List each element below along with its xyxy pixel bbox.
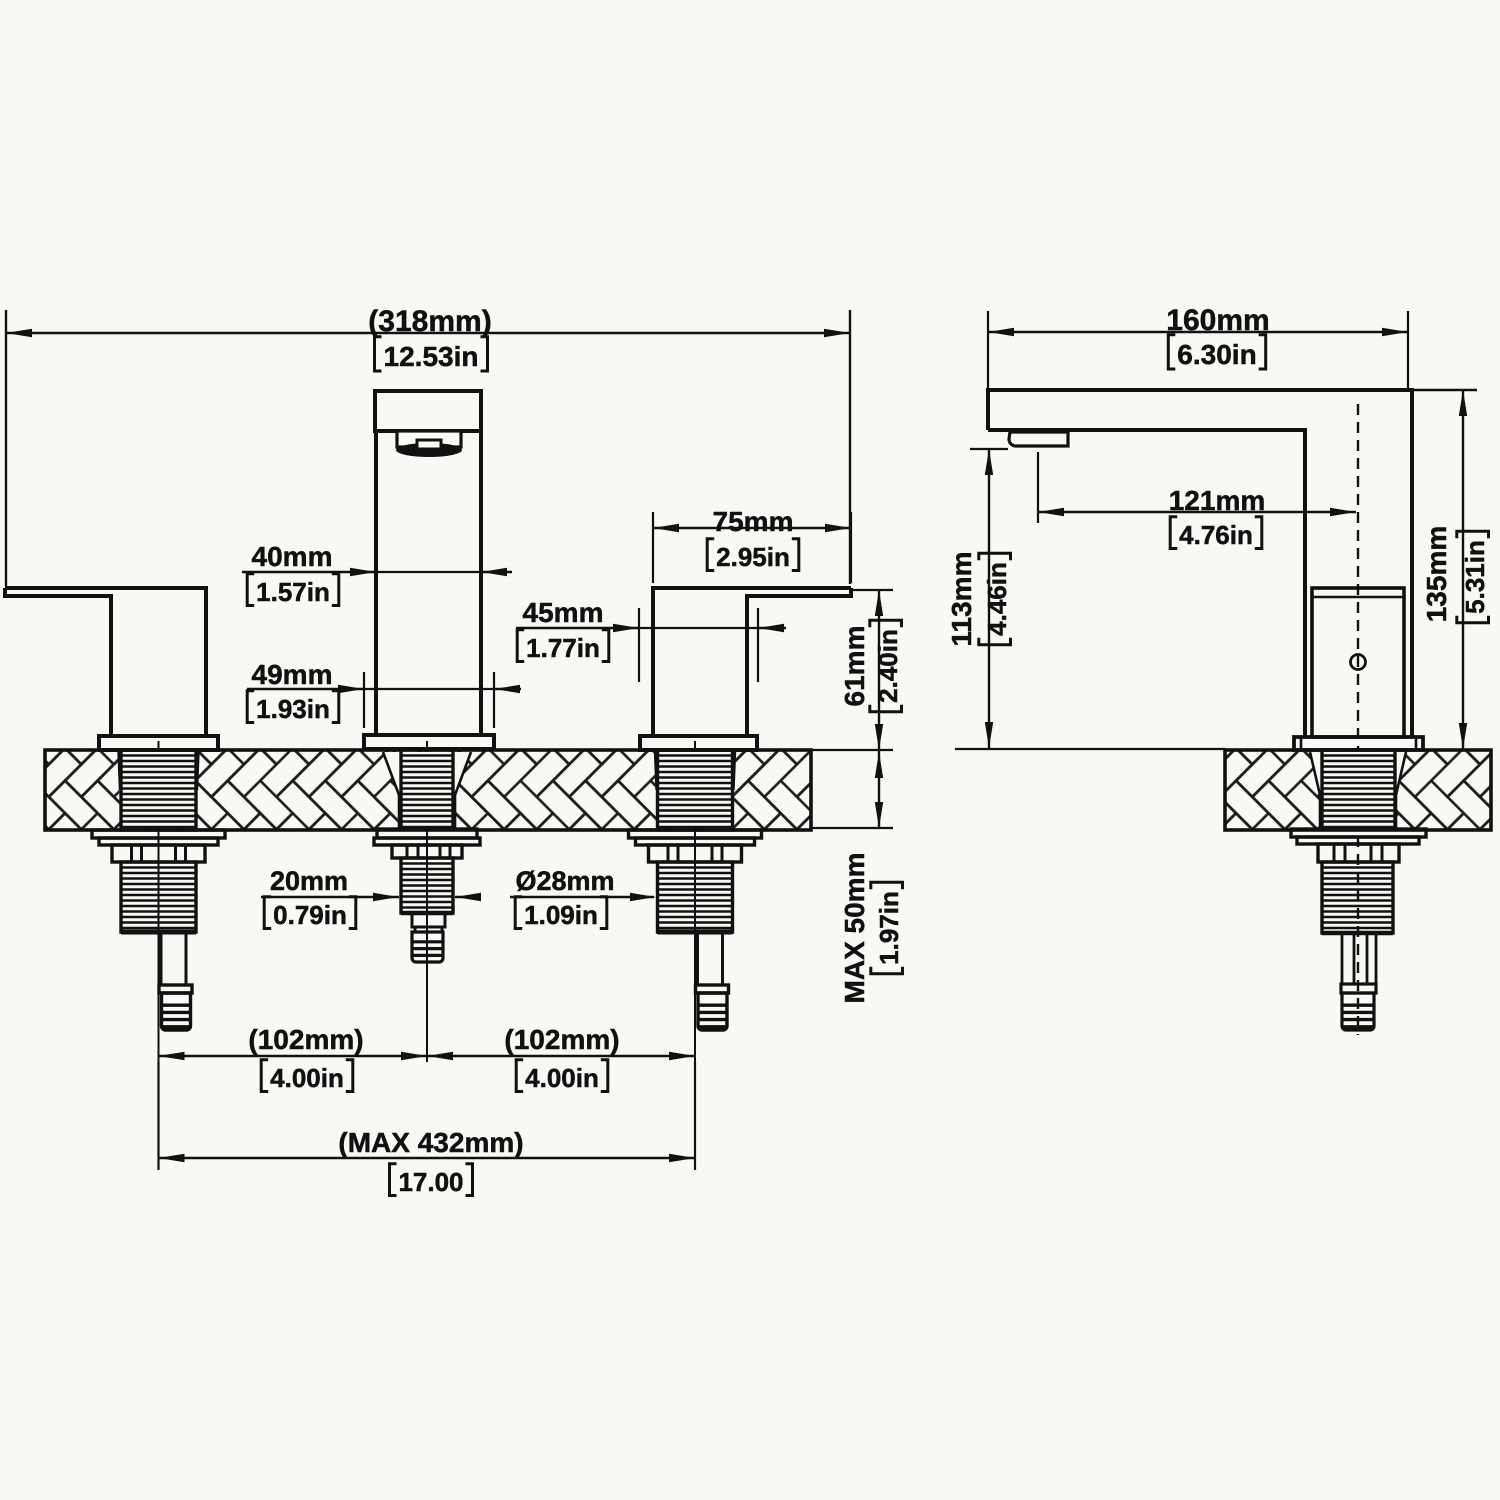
dim 40mm arrow right bbox=[481, 568, 507, 576]
dim 40mm tail line bbox=[481, 571, 512, 573]
svg-text:1.77in: 1.77in bbox=[526, 633, 600, 663]
svg-text:1.09in: 1.09in bbox=[524, 900, 598, 930]
right handle base flange bbox=[640, 736, 757, 750]
svg-text:MAX 50mm: MAX 50mm bbox=[839, 853, 870, 1004]
svg-text:(102mm): (102mm) bbox=[504, 1024, 619, 1055]
dim 75mm arrow left bbox=[653, 524, 679, 532]
side supply tubes bbox=[1342, 933, 1354, 984]
spout base flange bbox=[364, 735, 494, 749]
dim 113mm arrow bottom bbox=[985, 722, 993, 748]
dim 61mm arrow bottom bbox=[875, 724, 883, 750]
dim 160mm ext left bbox=[987, 311, 989, 388]
dim 318mm arrow right bbox=[824, 329, 850, 337]
side shank locknut bbox=[1318, 844, 1399, 862]
right handle outline bbox=[653, 588, 851, 736]
dim 50mm line bbox=[878, 751, 880, 828]
dim 49mm tail line bbox=[494, 688, 521, 690]
spout arm top ext bbox=[1412, 389, 1477, 392]
dim 49mm ext left bbox=[363, 672, 365, 728]
left shank washer bbox=[92, 830, 225, 838]
label [0.79in] bbox=[264, 897, 356, 930]
dim 49mm arrow left bbox=[338, 685, 364, 693]
side shank thread upper bbox=[1322, 750, 1395, 829]
dim 113mm top ext bbox=[970, 448, 1008, 450]
svg-text:45mm: 45mm bbox=[523, 597, 604, 628]
svg-text:5.31in: 5.31in bbox=[1460, 540, 1490, 614]
svg-text:40mm: 40mm bbox=[252, 541, 333, 572]
svg-text:1.97in: 1.97in bbox=[874, 891, 904, 965]
left shank thread upper bbox=[121, 750, 196, 830]
svg-text:135mm: 135mm bbox=[1421, 526, 1452, 623]
dim 75mm ext right bbox=[850, 512, 852, 583]
svg-text:4.00in: 4.00in bbox=[525, 1063, 599, 1093]
dim 160mm line bbox=[988, 331, 1408, 333]
center shank thread upper bbox=[401, 750, 453, 829]
dim 49mm leader line bbox=[247, 688, 364, 690]
dim 102mm line bbox=[159, 1055, 696, 1057]
svg-text:6.30in: 6.30in bbox=[1177, 339, 1256, 370]
label [1.97in] bbox=[871, 882, 904, 974]
dim 432 ext right bbox=[694, 1062, 696, 1170]
center shank washer bbox=[377, 829, 477, 838]
handle side panel bbox=[1312, 588, 1404, 737]
dim 121mm arrow right bbox=[1330, 508, 1356, 516]
label [1.57in] bbox=[247, 574, 339, 607]
spout cap front bbox=[375, 391, 481, 431]
dim 160mm arrow right bbox=[1382, 328, 1408, 336]
left shank locknut bbox=[112, 845, 205, 862]
dim 20mm arrow left bbox=[373, 893, 399, 901]
dim 61mm line bbox=[878, 590, 880, 750]
spout side profile bbox=[988, 390, 1412, 737]
label [4.00in] left bbox=[261, 1060, 353, 1093]
spout centerline bbox=[426, 741, 428, 1062]
svg-text:49mm: 49mm bbox=[252, 659, 333, 690]
label [1.09in] bbox=[515, 897, 607, 930]
dim 45mm ext right bbox=[757, 608, 759, 682]
center supply barb bbox=[412, 932, 443, 962]
dim 121mm arrow left bbox=[1038, 508, 1064, 516]
left handle base flange bbox=[99, 736, 218, 750]
dim 40mm leader line bbox=[242, 571, 374, 573]
label [4.76in] bbox=[1170, 517, 1262, 550]
dim 135mm arrow bottom bbox=[1459, 723, 1467, 749]
side supply barb bbox=[1342, 993, 1374, 1030]
left supply barb bbox=[162, 993, 191, 1030]
label [1.93in] bbox=[247, 691, 339, 724]
svg-text:160mm: 160mm bbox=[1166, 304, 1269, 337]
right supply collar bbox=[696, 985, 729, 993]
center shank locknut bbox=[392, 845, 462, 858]
svg-text:Ø28mm: Ø28mm bbox=[515, 866, 614, 896]
svg-text:4.00in: 4.00in bbox=[270, 1063, 344, 1093]
dim 28mm arrow bbox=[630, 893, 656, 901]
dim 28mm leader line bbox=[510, 896, 654, 898]
dim 50mm arrow bottom bbox=[875, 802, 883, 828]
dim 318mm extension line left bbox=[5, 310, 7, 586]
svg-text:1.57in: 1.57in bbox=[256, 577, 330, 607]
right supply barb bbox=[698, 993, 727, 1030]
dim 113mm deck ext bbox=[955, 748, 1225, 750]
dim 432 line bbox=[159, 1157, 696, 1159]
side shank washer bbox=[1291, 829, 1426, 837]
svg-text:113mm: 113mm bbox=[946, 552, 977, 647]
left supply collar bbox=[159, 985, 192, 993]
dim 61mm deck top ext bbox=[811, 749, 893, 751]
side centerline dashed bbox=[1357, 404, 1359, 1035]
deck hole left bbox=[119, 752, 199, 828]
left handle centerline bbox=[158, 741, 160, 1062]
dim 432 ext left bbox=[157, 1062, 159, 1170]
dim 102mm arrows center bbox=[401, 1052, 427, 1060]
dim 102mm arrow far-left bbox=[159, 1052, 185, 1060]
dim 121mm ext left bbox=[1037, 452, 1039, 523]
aerator side bbox=[1009, 432, 1068, 446]
dim 318mm dimension line bbox=[6, 332, 850, 334]
svg-text:(318mm): (318mm) bbox=[368, 305, 491, 338]
right shank thread lower bbox=[658, 862, 733, 932]
svg-text:12.53in: 12.53in bbox=[384, 341, 479, 372]
center supply neck bbox=[412, 913, 445, 927]
dim 113mm arrow top bbox=[985, 449, 993, 475]
dim 49mm arrow right bbox=[494, 685, 520, 693]
dim 45mm leader line bbox=[516, 627, 639, 629]
right shank locknut bbox=[649, 845, 742, 862]
dim 121mm line bbox=[1038, 511, 1356, 513]
deck slab side bbox=[1225, 750, 1491, 830]
dim 75mm dimension line bbox=[653, 527, 851, 529]
deck hole side bbox=[1310, 752, 1406, 828]
spout body front bbox=[376, 431, 481, 735]
label [1.77in] bbox=[517, 630, 609, 663]
dim 45mm inner line bbox=[639, 627, 758, 629]
label [17.00] bbox=[390, 1164, 473, 1197]
svg-text:1.93in: 1.93in bbox=[256, 694, 330, 724]
dim 102mm arrow far-right bbox=[669, 1052, 695, 1060]
deck slab front outline bbox=[45, 750, 811, 830]
label [2.95in] bbox=[707, 539, 799, 572]
dim 135mm arrow top bbox=[1459, 390, 1467, 416]
left supply tube bbox=[161, 932, 186, 985]
dim 20mm leader line bbox=[261, 896, 399, 898]
label [12.53in] bbox=[375, 337, 488, 372]
dim 45mm arrow right bbox=[758, 624, 784, 632]
dim 50mm deck bottom ext bbox=[811, 827, 893, 829]
dim 160mm arrow left bbox=[988, 328, 1014, 336]
dim 20mm arrow right bbox=[455, 893, 481, 901]
svg-text:2.95in: 2.95in bbox=[716, 542, 790, 572]
label [2.40in] bbox=[870, 620, 903, 712]
label [4.46in] bbox=[979, 553, 1012, 645]
dim 61mm ext lever bbox=[853, 589, 893, 591]
spout aerator dark lip bbox=[396, 443, 462, 457]
dim 49mm ext right bbox=[493, 672, 495, 728]
right supply tube bbox=[698, 932, 723, 985]
right shank washer bbox=[629, 830, 762, 838]
dim 318mm arrow left bbox=[6, 329, 32, 337]
svg-text:4.76in: 4.76in bbox=[1179, 520, 1253, 550]
svg-text:(MAX 432mm): (MAX 432mm) bbox=[338, 1127, 523, 1158]
side supply collar bbox=[1341, 984, 1376, 993]
dim 61mm arrow top bbox=[875, 590, 883, 616]
dim 20mm tail line bbox=[455, 896, 480, 898]
svg-text:(102mm): (102mm) bbox=[248, 1024, 363, 1055]
dim 40mm arrow left bbox=[350, 568, 376, 576]
left handle outline bbox=[5, 588, 206, 736]
dim 135mm line bbox=[1462, 390, 1464, 749]
side shank thread lower bbox=[1322, 862, 1393, 933]
deck hole right bbox=[655, 752, 735, 828]
dim 49mm inner line bbox=[364, 688, 494, 690]
side base flange bbox=[1294, 737, 1423, 750]
dim 75mm arrow right bbox=[825, 524, 851, 532]
center shank thread lower bbox=[401, 858, 453, 913]
svg-text:20mm: 20mm bbox=[270, 866, 348, 896]
dim 113mm line bbox=[988, 449, 990, 748]
dim 432 arrow left bbox=[159, 1154, 185, 1162]
svg-text:61mm: 61mm bbox=[839, 626, 870, 707]
deck slab front bbox=[45, 750, 811, 830]
dim 45mm tail line bbox=[758, 627, 786, 629]
dim 160mm ext right bbox=[1407, 311, 1409, 388]
deck slab side outline bbox=[1225, 750, 1491, 830]
left shank thread lower bbox=[121, 862, 196, 932]
svg-text:121mm: 121mm bbox=[1169, 485, 1266, 516]
dim 432 arrow right bbox=[669, 1154, 695, 1162]
label [6.30in] bbox=[1168, 335, 1265, 370]
svg-text:0.79in: 0.79in bbox=[273, 900, 347, 930]
svg-text:17.00: 17.00 bbox=[398, 1167, 463, 1197]
svg-text:75mm: 75mm bbox=[713, 506, 794, 537]
dim 318mm extension line right bbox=[849, 310, 851, 584]
right handle centerline bbox=[694, 741, 696, 1062]
label [5.31in] bbox=[1457, 531, 1490, 623]
svg-text:2.40in: 2.40in bbox=[873, 629, 903, 703]
svg-text:4.46in: 4.46in bbox=[982, 562, 1012, 636]
spout aerator housing bbox=[397, 431, 461, 447]
dim 50mm arrow top bbox=[875, 752, 883, 778]
spout aerator inner detail bbox=[417, 440, 441, 449]
label [4.00in] right bbox=[516, 1060, 608, 1093]
deck hole center bbox=[383, 752, 471, 828]
dim 45mm ext left bbox=[638, 608, 640, 682]
handle set screw bbox=[1351, 655, 1366, 670]
dim 40mm inner line bbox=[376, 571, 481, 573]
right shank thread upper bbox=[658, 750, 733, 830]
dim 75mm ext left bbox=[652, 512, 654, 583]
dim 45mm arrow left bbox=[613, 624, 639, 632]
